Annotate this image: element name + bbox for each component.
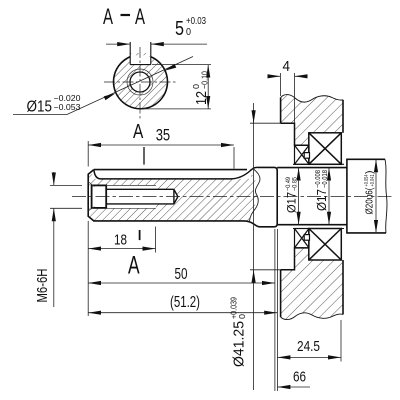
svg-text:−0.053: −0.053 <box>54 103 82 112</box>
svg-text:A: A <box>133 121 144 143</box>
dimension diameter 17 -0.49/-0.85 <box>298 168 300 225</box>
svg-text:−0.85: −0.85 <box>292 177 299 191</box>
dimension diameter 41.25 +0.039/0 <box>250 103 281 390</box>
axis centerline <box>72 196 393 198</box>
svg-text:18: 18 <box>114 231 127 248</box>
svg-text:Ø20u6(: Ø20u6( <box>365 187 376 215</box>
svg-text:A: A <box>135 4 145 29</box>
main view: shaft hatch <box>88 169 257 221</box>
dimension 35 <box>88 141 234 169</box>
dimension 18 <box>88 227 155 253</box>
svg-text:−0.020: −0.020 <box>54 94 82 103</box>
PTO shaft end diameter 20u6 <box>347 159 387 233</box>
svg-text:12: 12 <box>193 91 210 105</box>
dimension diameter 17 -0.008/-0.018 <box>328 168 330 225</box>
tapped hole M6: entry counterbore <box>92 185 107 208</box>
shaft outer circle A-A <box>114 57 168 109</box>
tapped hole minor circle A-A <box>130 72 150 92</box>
section title A-A <box>121 14 131 16</box>
freehand break line at flange <box>250 168 260 221</box>
thread minor lines and drill cone <box>106 189 178 204</box>
svg-text:35: 35 <box>156 126 171 145</box>
cutting plane tick top with letter A <box>143 147 145 165</box>
lower seal (small square with cross) <box>295 229 310 248</box>
keyway slot A-A <box>130 42 151 65</box>
svg-text:Ø17: Ø17 <box>314 189 329 211</box>
svg-text:−0.018: −0.018 <box>322 170 329 188</box>
svg-text:Ø41.25: Ø41.25 <box>231 321 248 367</box>
dimension diameter 20u6 (+0.054/+0.041) <box>375 159 377 233</box>
svg-text:+0.03: +0.03 <box>186 16 206 27</box>
dimension (51.2) <box>88 229 277 391</box>
housing wall lower block outline <box>281 248 343 320</box>
housing wall upper block hatch <box>281 95 343 146</box>
svg-text:+0.041: +0.041 <box>370 175 376 187</box>
svg-text:Ø15: Ø15 <box>27 99 53 116</box>
centerline vertical A-A <box>139 47 141 121</box>
centerline horizontal A-A <box>104 81 176 83</box>
svg-text:M6-6H: M6-6H <box>34 269 51 303</box>
dimension 4 <box>268 73 307 123</box>
shaft top edge <box>94 169 247 171</box>
dimension M6-6H <box>50 172 82 307</box>
svg-text:24.5: 24.5 <box>297 338 320 355</box>
keyway floor line and fillet to flange top <box>94 167 258 179</box>
shaft through wall (diameter 17 section) <box>277 167 347 169</box>
tapped hole major thin circle A-A <box>127 69 153 95</box>
thread major thin lines <box>88 182 156 211</box>
svg-text:A: A <box>103 4 113 29</box>
dimension 66 <box>277 386 310 388</box>
svg-text:0: 0 <box>237 314 247 319</box>
svg-text:−0.10: −0.10 <box>200 71 210 89</box>
svg-text:(51.2): (51.2) <box>170 294 200 311</box>
dimension 12 0/-0.10 <box>143 65 211 109</box>
housing wall lower block hatch <box>281 248 343 320</box>
dimension 50 <box>88 221 275 316</box>
lower race line <box>293 228 344 230</box>
leader diameter 15 -0.020/-0.053 <box>13 57 193 115</box>
upper race line <box>293 163 344 165</box>
svg-text:66: 66 <box>293 369 306 386</box>
housing wall upper block outline <box>281 95 343 146</box>
upper seal (small square with cross) <box>295 145 310 164</box>
svg-text:0: 0 <box>186 27 191 38</box>
upper seal lip detail <box>304 153 309 159</box>
lower seal lip detail <box>304 235 309 241</box>
svg-text:Ø17: Ø17 <box>285 192 299 213</box>
svg-text:5: 5 <box>175 18 184 40</box>
svg-text:4: 4 <box>283 58 291 75</box>
svg-text:A: A <box>128 251 140 279</box>
hatch of shaft cross-section A-A <box>113 53 167 109</box>
upper bearing (square with cross) <box>309 133 342 165</box>
cutting plane tick bottom with letter A <box>139 230 141 240</box>
dimension 5 +0.03/0 <box>106 43 207 45</box>
svg-text:−0.008: −0.008 <box>315 170 322 188</box>
svg-text:): ) <box>365 171 376 175</box>
lower bearing (square with cross) <box>309 229 342 261</box>
main view: shaft outline <box>88 167 277 226</box>
dimension 24.5 <box>277 320 341 362</box>
svg-text:50: 50 <box>175 266 188 283</box>
